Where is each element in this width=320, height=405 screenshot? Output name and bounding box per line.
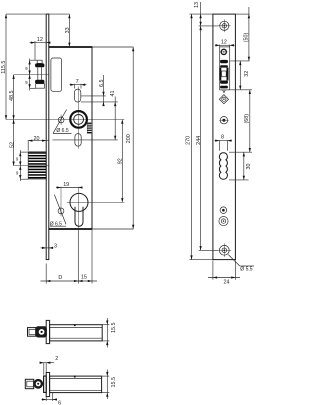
dimension 24 plate width [208, 261, 240, 286]
svg-text:15: 15 [81, 275, 87, 281]
svg-text:41: 41 [110, 91, 116, 97]
small hole below diamond [219, 117, 229, 124]
B screw mark on case [74, 376, 76, 378]
dimension 7 slot width [70, 79, 87, 89]
B latch flange [44, 376, 47, 392]
B case top view [50, 376, 102, 393]
svg-text:D: D [58, 275, 62, 281]
bottom screw hole [217, 243, 231, 256]
latch tip circle in cutout [220, 49, 228, 54]
ext lines right view [189, 14, 252, 260]
label diameter 5.5 with leader [228, 255, 254, 273]
svg-text:115.5: 115.5 [1, 61, 7, 74]
lock case right edge [91, 47, 93, 229]
svg-text:(68): (68) [244, 114, 250, 124]
centerline vertical lock axis upper [77, 87, 79, 149]
lower fixing hole Ø6.5 [58, 208, 64, 214]
svg-text:20: 20 [34, 136, 40, 142]
cutout bottom notch [223, 90, 226, 93]
small hole pair lower [219, 217, 228, 226]
upper fixing hole Ø6.5 [58, 117, 64, 123]
dimension 52 [9, 120, 15, 166]
upper Ø6.5 leader and label [53, 110, 72, 135]
dimension 48.5 [9, 75, 15, 120]
latch body inside case [51, 58, 62, 91]
svg-text:15.5: 15.5 [111, 377, 117, 388]
latch roller band lower [35, 80, 44, 84]
latch head cap [37, 60, 42, 63]
dimension (68) [244, 90, 251, 152]
dimension (50) [244, 7, 250, 61]
centerline latch axis horizontal [14, 74, 49, 76]
lower adjusting slot [75, 134, 81, 147]
ext line faceplate top [6, 13, 69, 15]
dimension 92 [117, 120, 123, 203]
centerline follower axis horizontal [6, 119, 124, 121]
ext line case bottom right [92, 228, 133, 230]
svg-text:6.5: 6.5 [99, 80, 105, 88]
dimension 6.5 [81, 75, 118, 106]
lower Ø6.5 leader and label [50, 195, 66, 228]
hatched stop block at case edge [87, 123, 92, 134]
dimension 8 slot width [215, 135, 232, 151]
svg-text:Ø 6.5: Ø 6.5 [56, 128, 68, 134]
svg-text:3: 3 [54, 243, 57, 249]
B latch tip tube [25, 379, 33, 388]
svg-text:32: 32 [244, 71, 250, 77]
faceplate edge view [46, 14, 49, 260]
dimension 115.5 [1, 14, 7, 119]
A latch tip tube [28, 328, 36, 337]
dimension 13 [194, 2, 202, 26]
dimension 30 [243, 152, 253, 180]
A latch roller housing [36, 326, 47, 337]
latch stem [38, 67, 42, 80]
dimension 3 faceplate thickness [41, 243, 58, 249]
deadbolt thrown with lamella hatching [28, 152, 46, 179]
latch roller band upper [35, 63, 44, 67]
A screw mark on case [74, 324, 76, 326]
svg-text:(50): (50) [244, 33, 250, 43]
B latch roller housing [33, 379, 43, 389]
follower square hub inner circle [74, 115, 84, 125]
lock case bottom edge [49, 228, 93, 230]
svg-text:270: 270 [186, 136, 192, 145]
A faceplate top view [46, 320, 49, 343]
centerline cylinder axis horizontal [67, 201, 125, 203]
svg-text:7: 7 [76, 79, 79, 85]
svg-text:Ø 6.5: Ø 6.5 [50, 222, 62, 228]
A case top view [50, 325, 103, 341]
follower (handle hub) outer circle [70, 111, 87, 128]
svg-text:8: 8 [221, 135, 224, 141]
dimension 244 [196, 26, 202, 250]
upper adjusting slot 7mm [75, 89, 81, 102]
svg-text:Ø 5.5: Ø 5.5 [240, 267, 252, 273]
B dimension 2 [40, 356, 59, 375]
deadbolt wavy slot [219, 153, 227, 180]
B faceplate top view [46, 373, 49, 397]
dimension 19 cylinder to hole [56, 182, 83, 189]
dimension D backset and 15 [41, 230, 98, 284]
faceplate front outline [213, 14, 236, 260]
svg-text:92: 92 [117, 158, 123, 164]
centerline deadbolt axis horizontal [14, 165, 49, 167]
deadbolt height dimensions 9/9 [16, 150, 28, 181]
lock case top edge [49, 46, 93, 48]
centerline vertical lock axis lower [77, 187, 79, 229]
A dimension 15.5 [102, 318, 117, 348]
dimension 33 [65, 14, 71, 47]
svg-text:52: 52 [9, 142, 15, 148]
latch roller strips in cutout [219, 60, 228, 88]
svg-text:200: 200 [126, 134, 132, 143]
small hole pair upper [220, 207, 227, 214]
dimension 12 cutout width [215, 40, 235, 47]
svg-text:19: 19 [63, 182, 69, 188]
svg-text:33: 33 [65, 27, 71, 33]
B dimension 6 [42, 393, 62, 405]
dimension 32 [239, 61, 250, 90]
top screw hole [218, 20, 231, 33]
ext line case top right [92, 46, 133, 48]
B dimension 15.5 [102, 370, 117, 400]
svg-text:244: 244 [196, 136, 202, 145]
dimension 20 deadbolt width [28, 136, 49, 151]
svg-text:6: 6 [58, 400, 61, 405]
svg-text:30: 30 [246, 164, 252, 170]
dimension 12 latch protrusion [30, 37, 51, 60]
dimension 270 [186, 14, 193, 260]
svg-text:24: 24 [224, 280, 230, 286]
svg-text:12: 12 [221, 40, 227, 46]
latch cutout [220, 47, 230, 90]
latch foot [36, 84, 45, 89]
centerline small hole vertical upper [60, 115, 62, 126]
profile cylinder hole [70, 193, 88, 226]
svg-text:2: 2 [55, 356, 58, 362]
svg-text:12: 12 [37, 37, 43, 43]
countersunk diamond hole [219, 95, 228, 104]
svg-text:15.5: 15.5 [111, 323, 117, 334]
latch height dimensions 9/9 [25, 59, 37, 91]
dimension 200 [126, 47, 134, 229]
dimension 41 [53, 91, 118, 140]
svg-text:13: 13 [194, 2, 200, 8]
svg-text:48.5: 48.5 [9, 91, 15, 102]
centerline small hole vertical lower [60, 187, 62, 217]
